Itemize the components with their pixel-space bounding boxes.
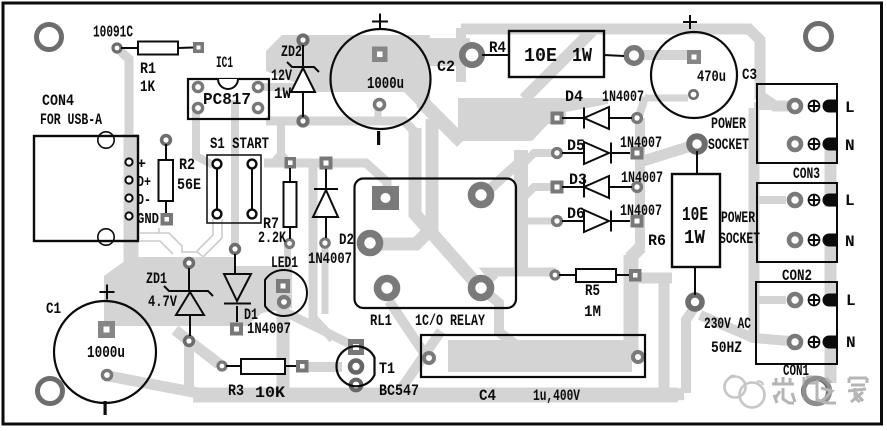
wire C3 minus band xyxy=(645,95,688,102)
capacitor C4 outline xyxy=(421,335,645,377)
wire C3 minus to diode column xyxy=(639,97,645,116)
node S1 pin top-right xyxy=(248,160,257,169)
resistor R2 body xyxy=(159,160,174,201)
op-amp U1 IC1 body fill xyxy=(188,79,269,119)
svg-text:C2: C2 xyxy=(437,58,455,76)
diode ZD2 zener xyxy=(287,45,319,117)
node USB shell hole top xyxy=(98,132,114,148)
connector CON3 body fill xyxy=(757,84,837,163)
switch S1 body fill xyxy=(207,155,261,223)
watermark glyph 片 xyxy=(804,377,817,402)
node IC1 pin2 xyxy=(193,103,202,112)
resistor R6 body xyxy=(672,174,720,267)
svg-text:1N4007: 1N4007 xyxy=(621,169,663,187)
node C2 minus pad xyxy=(375,100,385,110)
node R4 pad right xyxy=(626,48,642,64)
capacitor C2 outline xyxy=(331,29,431,129)
wire IC1 pin2 down to S1 xyxy=(196,108,213,165)
svg-text:ZD1: ZD1 xyxy=(146,270,167,288)
svg-text:PC817: PC817 xyxy=(203,91,251,110)
wire band pour to R4 left pad xyxy=(428,38,470,66)
wire R4 leads xyxy=(482,55,624,56)
wire bottom band to 230V vertical xyxy=(648,394,684,396)
svg-text:GND: GND xyxy=(137,211,159,228)
diode D6 xyxy=(562,210,630,232)
node D4 pad left (square) xyxy=(551,112,564,125)
wire CON1 L stub xyxy=(754,296,786,304)
capacitor C3 plus mark xyxy=(683,15,697,29)
wire relay bottom-left pad to C4 left pad xyxy=(389,301,426,356)
node RL1 pad left xyxy=(361,234,380,253)
node D5 pad right (square) xyxy=(631,147,644,160)
diode D3 xyxy=(562,176,632,198)
connector CON3 N wire tab xyxy=(823,138,838,151)
connector CON3 L terminal screw xyxy=(809,101,820,112)
node D3 pad right xyxy=(633,183,642,192)
svg-text:1W: 1W xyxy=(274,85,291,103)
wire vertical to bottom band xyxy=(659,276,670,393)
connector CON2 L wire tab xyxy=(823,194,838,207)
svg-text:2.2K: 2.2K xyxy=(258,229,286,247)
svg-text:1u,400V: 1u,400V xyxy=(533,387,580,405)
svg-text:470u: 470u xyxy=(697,68,726,86)
node CON2 L pad xyxy=(789,194,801,206)
node R3 pad right (square) xyxy=(296,360,309,373)
wire R6 leads xyxy=(695,151,697,295)
wire 230V pad lead xyxy=(694,294,696,295)
logo bubble circle 1 xyxy=(725,377,746,398)
svg-text:230V AC: 230V AC xyxy=(704,315,751,333)
relay RL1 outline xyxy=(355,179,517,309)
wire junction fillet xyxy=(270,148,292,161)
wire y121 band C2-minus xyxy=(266,121,414,131)
wire CON L vertical xyxy=(749,108,760,342)
node ZD2 anode pad xyxy=(298,116,307,125)
wire branch down to T1 area xyxy=(313,166,333,339)
capacitor C4 body fill xyxy=(421,335,645,377)
node R7 pad top (square) xyxy=(285,157,297,169)
wire R3 left diagonal xyxy=(175,330,219,364)
mounting hole top-right xyxy=(806,24,832,50)
mounting hole bottom-right xyxy=(804,379,829,404)
node R4 pad left xyxy=(462,45,481,64)
node RL1 pad top-right xyxy=(472,186,491,205)
wire R5 leads xyxy=(559,274,629,276)
wire IC1 pin4 stub xyxy=(258,83,298,91)
svg-text:10E: 10E xyxy=(524,45,557,67)
node S1 pin bottom-left xyxy=(213,210,222,219)
wire R2 leads xyxy=(165,144,167,213)
connector CON1 body fill xyxy=(756,282,837,364)
wire CON2 L stub xyxy=(754,196,786,204)
node USB pin GND xyxy=(125,212,132,219)
op-amp U1 IC1 notch xyxy=(218,79,238,89)
connector CON2 outline xyxy=(757,183,837,262)
wire R4 right pad to C3 plus xyxy=(640,50,688,60)
wire diagonal pour1 to pour2 xyxy=(421,101,462,142)
wire S1 GND outline trace xyxy=(197,219,222,256)
LAYER D: pads xyxy=(98,35,801,390)
node LED1 anode pad (square) xyxy=(276,279,290,293)
node power socket pad bottom (230V) xyxy=(688,295,702,309)
svg-text:4.7V: 4.7V xyxy=(148,293,177,311)
svg-text:R6: R6 xyxy=(648,232,666,250)
svg-text:IC1: IC1 xyxy=(216,54,233,72)
wire S1 contacts xyxy=(217,169,252,209)
wire R1 left to USB xyxy=(117,48,129,137)
USB CON4 body fill xyxy=(34,136,138,241)
svg-text:1N4007: 1N4007 xyxy=(308,250,352,268)
node IC1 pin1 xyxy=(193,82,202,91)
wire C1 minus diagonal xyxy=(108,376,198,393)
wire 230V pad down xyxy=(686,308,694,393)
svg-text:ZD2: ZD2 xyxy=(281,43,302,61)
svg-text:D+: D+ xyxy=(137,174,151,191)
relay RL1 body fill xyxy=(355,179,517,309)
node C1 plus pad (square) xyxy=(98,321,115,338)
svg-text:BC547: BC547 xyxy=(379,382,419,400)
connector CON2 L terminal screw xyxy=(809,195,820,206)
svg-text:S1 START: S1 START xyxy=(210,135,269,153)
node C1 minus pad xyxy=(102,370,111,379)
svg-text:N: N xyxy=(845,137,855,155)
node T1 emitter pad (square) xyxy=(348,339,364,355)
wire diode column left vertical xyxy=(514,150,528,272)
connector CON3 L wire tab xyxy=(823,100,838,113)
node ZD2 cathode pad xyxy=(298,35,307,44)
node D5 pad left xyxy=(553,149,562,158)
wire D3 left stub xyxy=(522,187,555,199)
node USB pin + xyxy=(125,158,132,165)
svg-text:SOCKET: SOCKET xyxy=(708,136,749,154)
watermark glyph 芯 xyxy=(772,377,795,403)
svg-text:N: N xyxy=(846,334,856,352)
resistor R5 body xyxy=(576,269,616,282)
connector CON1 outline xyxy=(756,282,837,364)
node D6 pad right (square) xyxy=(631,215,644,228)
svg-text:POWER: POWER xyxy=(721,209,755,227)
node T1 collector pad xyxy=(351,380,362,391)
node CON3 L pad xyxy=(789,100,801,112)
svg-text:1N4007: 1N4007 xyxy=(620,202,662,220)
diode ZD1 zener xyxy=(164,268,213,336)
switch S1 outline xyxy=(207,155,261,223)
svg-text:+: + xyxy=(137,156,146,173)
svg-text:1W: 1W xyxy=(572,45,593,67)
node R2 pad top xyxy=(162,136,171,145)
node CON1 N pad xyxy=(789,336,801,348)
svg-text:CON4: CON4 xyxy=(42,92,74,110)
node ZD1 anode pad xyxy=(185,337,194,346)
wire relay top-right pad to column xyxy=(481,159,523,197)
svg-text:R1: R1 xyxy=(140,60,156,78)
svg-text:C4: C4 xyxy=(479,387,496,405)
diode D4 xyxy=(562,107,632,129)
wire R2 GND outline trace xyxy=(140,228,209,261)
svg-text:D3: D3 xyxy=(569,171,587,189)
wire relay bottom-right down to C4 xyxy=(481,288,519,347)
wire R3 leads xyxy=(226,365,296,367)
LED LED1 outline xyxy=(265,270,307,316)
capacitor C1 minus mark xyxy=(104,401,107,415)
svg-text:L: L xyxy=(845,192,855,210)
node D1 pad bottom (square) xyxy=(230,323,243,336)
node R3 pad left xyxy=(218,362,226,370)
svg-text:10E: 10E xyxy=(682,204,708,226)
svg-text:LED1: LED1 xyxy=(271,254,298,272)
svg-text:T1: T1 xyxy=(379,360,395,378)
node D2 pad top (square) xyxy=(320,157,333,170)
wire ZD1 bottom stub xyxy=(184,344,194,390)
wire R3 to T1 band xyxy=(300,362,342,372)
connector CON3 N terminal screw xyxy=(809,139,820,150)
mounting hole top-left xyxy=(37,25,62,50)
node D2 pad bottom xyxy=(321,239,329,247)
node USB pin D+ xyxy=(125,176,132,183)
wire relay to R5 band xyxy=(481,272,556,288)
watermark glyph 之 xyxy=(818,378,836,403)
resistor R3 body xyxy=(241,359,285,374)
node USB pin D- xyxy=(125,194,132,201)
svg-text:SOCKET: SOCKET xyxy=(719,230,760,248)
wire C4 interior fill xyxy=(448,340,632,372)
svg-text:1N4007: 1N4007 xyxy=(620,134,662,152)
node D3 pad left (square) xyxy=(551,181,564,194)
wire LED1 bottom vertical xyxy=(277,308,290,397)
wire LED net diagonal to T1 emitter xyxy=(283,311,354,346)
svg-text:1N4007: 1N4007 xyxy=(247,320,291,338)
wire diode column jog to R5 column xyxy=(630,247,641,258)
wire ZD2 bottom vertical xyxy=(277,117,285,160)
svg-text:1C/O RELAY: 1C/O RELAY xyxy=(415,312,485,330)
wire C3 to CON3 L band xyxy=(461,29,788,106)
node RL1 pad bottom-left xyxy=(378,279,397,298)
svg-text:D6: D6 xyxy=(567,205,585,223)
svg-text:D2: D2 xyxy=(339,231,354,249)
node R1 pad right (square) xyxy=(193,42,204,53)
node CON1 L pad xyxy=(789,294,801,306)
wire vertical into relay (to left-middle pad) xyxy=(372,119,432,244)
wire bottom long band xyxy=(193,388,678,403)
connector CON1 N terminal screw xyxy=(809,337,820,348)
svg-text:10K: 10K xyxy=(255,384,285,402)
watermark xyxy=(725,376,868,408)
wire D2 bottom vertical xyxy=(322,247,329,314)
node CON2 N pad xyxy=(789,234,801,246)
svg-text:CON3: CON3 xyxy=(793,165,820,183)
wire IC1 to D1 vertical xyxy=(231,100,239,250)
wire R7 leads xyxy=(289,168,291,239)
svg-text:D4: D4 xyxy=(565,88,583,106)
node USB shell hole bottom xyxy=(98,229,114,245)
diode D5 xyxy=(562,142,630,164)
node T1 base pad xyxy=(350,361,362,373)
wire pour bottom-left (ground pour) xyxy=(104,257,292,326)
node S1 pin bottom-right xyxy=(248,210,257,219)
capacitor C1 outline xyxy=(54,301,156,403)
svg-text:R4: R4 xyxy=(489,39,506,57)
svg-text:L: L xyxy=(845,99,855,117)
wire relay to R5 horizontal xyxy=(488,268,556,277)
diode D1 xyxy=(224,254,251,322)
resistor R4 body xyxy=(509,31,604,77)
svg-text:POWER: POWER xyxy=(711,115,746,133)
node C3 plus pad (square) xyxy=(687,50,701,64)
node R5 pad left xyxy=(551,271,559,279)
connector CON2 N wire tab xyxy=(823,234,838,247)
svg-text:RL1: RL1 xyxy=(370,312,392,330)
wire USB vertical band xyxy=(124,134,139,263)
svg-text:1N4007: 1N4007 xyxy=(602,88,644,106)
svg-text:1000u: 1000u xyxy=(367,75,404,94)
USB CON4 outline xyxy=(34,136,138,241)
transistor Q1 T1 outline xyxy=(337,346,375,386)
wire diagonal through R4 body xyxy=(524,31,592,99)
svg-text:D5: D5 xyxy=(567,137,585,155)
wire CON N vertical segment 3 xyxy=(825,338,837,383)
svg-text:C1: C1 xyxy=(46,300,61,318)
resistor R1 body xyxy=(138,42,178,55)
diode D2 xyxy=(313,169,338,238)
connector CON1 L terminal screw xyxy=(809,295,820,306)
LAYER C: copper traces / pours xyxy=(104,28,831,398)
node R7 pad bottom xyxy=(286,240,294,248)
node R2 pad bottom (square) xyxy=(161,213,174,226)
wire C4 interior to bottom band diagonal xyxy=(399,331,441,392)
node CON3 N pad xyxy=(789,138,801,150)
wire R1 leads xyxy=(121,47,193,50)
node RL1 coil pad (square) xyxy=(372,186,399,210)
wire T1 bottom stub xyxy=(352,382,360,398)
svg-text:56E: 56E xyxy=(177,176,201,194)
svg-text:D-: D- xyxy=(137,192,151,209)
watermark ring around 之 xyxy=(804,378,830,404)
LAYER B: white body fills xyxy=(34,79,837,377)
wire pour top-right (bridge input) xyxy=(458,98,608,141)
svg-text:N: N xyxy=(845,233,855,251)
svg-text:CON2: CON2 xyxy=(782,267,812,285)
connector CON3 outline xyxy=(757,84,837,163)
capacitor C2 plus mark xyxy=(372,14,388,30)
wire D6 left stub xyxy=(524,218,553,225)
node C4 pad left xyxy=(424,353,434,363)
node S1 pin top-left xyxy=(213,160,222,169)
logo ear mark xyxy=(729,376,763,385)
logo bubble circle 2 xyxy=(740,383,765,408)
wire CON3 L stub xyxy=(754,102,786,110)
capacitor C2 minus mark xyxy=(377,131,380,145)
svg-text:1K: 1K xyxy=(140,78,155,96)
wire pour top-center (C2/ZD2 net) xyxy=(266,35,430,106)
wire C2 minus stub xyxy=(375,104,382,122)
op-amp U1 IC1 outline xyxy=(188,79,269,119)
capacitor C1 plus mark xyxy=(100,285,115,300)
svg-text:50HZ: 50HZ xyxy=(711,339,742,357)
wire y163 band S1/R7/D2 xyxy=(264,163,387,200)
mounting hole bottom-left xyxy=(38,379,63,404)
capacitor C3 outline xyxy=(651,32,737,118)
svg-text:1W: 1W xyxy=(684,227,706,249)
wire vertical into relay (to bottom-right pad) xyxy=(415,128,481,289)
node C2 plus pad (square) xyxy=(372,47,388,63)
svg-text:FOR USB-A: FOR USB-A xyxy=(40,111,102,129)
node power socket pad top xyxy=(689,136,705,152)
wire y278 horizontal xyxy=(636,273,672,284)
svg-text:12V: 12V xyxy=(271,67,292,85)
watermark glyph 家 xyxy=(848,378,867,402)
connector CON1 N wire tab xyxy=(823,336,838,349)
wire D5 left stub xyxy=(521,153,555,166)
wire R5 right down to C4 xyxy=(624,255,639,352)
node RL1 pad bottom-right xyxy=(472,279,491,298)
svg-text:1M: 1M xyxy=(584,303,601,321)
node R5 pad right (square) xyxy=(629,269,642,282)
resistor R7 body xyxy=(284,182,297,227)
svg-text:1000u: 1000u xyxy=(87,344,125,363)
connector CON2 body fill xyxy=(757,183,837,262)
svg-text:C3: C3 xyxy=(742,66,757,84)
wire R4 pad vertical stub xyxy=(456,28,466,82)
svg-text:R5: R5 xyxy=(585,282,600,300)
wire 230V to CON1 N xyxy=(700,315,790,341)
node R1 pad left xyxy=(113,44,121,52)
node D1 pad top xyxy=(231,245,240,254)
node C3 minus pad xyxy=(689,90,697,98)
svg-text:R2: R2 xyxy=(179,156,195,174)
svg-text:10091C: 10091C xyxy=(93,24,133,43)
node IC1 pin3 xyxy=(253,103,262,112)
node D4 pad right xyxy=(633,114,642,123)
node ZD1 cathode pad xyxy=(185,259,194,268)
wire R6 top stub xyxy=(643,147,688,161)
node C4 pad right xyxy=(633,352,643,362)
node IC1 pin4 xyxy=(253,82,262,91)
wire CON N vertical segment 1 xyxy=(825,140,837,207)
wire CON N vertical segment 2 xyxy=(825,236,837,305)
node LED1 cathode pad xyxy=(279,297,289,307)
svg-text:R3: R3 xyxy=(228,382,244,400)
wire R7 bottom vertical xyxy=(284,246,291,284)
connector CON1 L wire tab xyxy=(823,294,838,307)
node D6 pad left xyxy=(553,217,562,226)
wire diode column right vertical xyxy=(635,118,645,250)
connector CON2 N terminal screw xyxy=(809,235,820,246)
svg-text:L: L xyxy=(846,292,856,310)
